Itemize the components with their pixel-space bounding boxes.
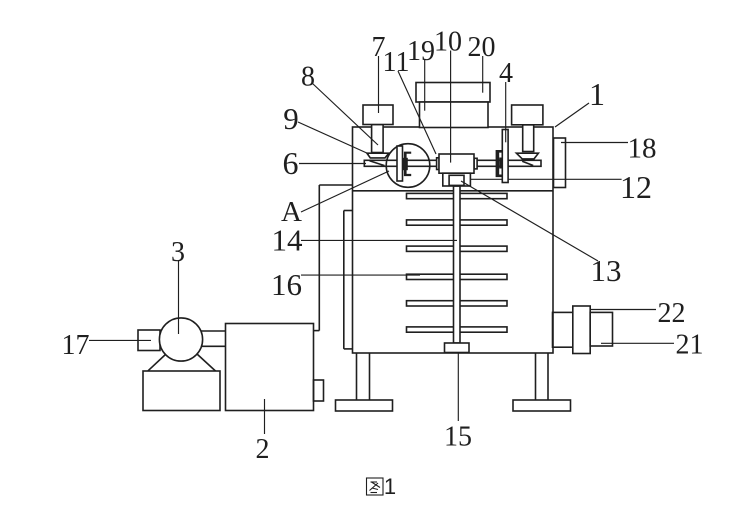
svg-text:21: 21 (676, 330, 704, 361)
svg-text:9: 9 (283, 101, 299, 136)
svg-text:14: 14 (272, 223, 304, 258)
svg-text:18: 18 (628, 133, 657, 165)
svg-text:11: 11 (383, 47, 410, 78)
svg-text:13: 13 (591, 253, 622, 288)
svg-text:15: 15 (444, 422, 472, 453)
svg-text:16: 16 (271, 267, 302, 302)
svg-text:12: 12 (620, 169, 652, 205)
svg-text:1: 1 (384, 474, 396, 499)
svg-text:17: 17 (62, 330, 90, 361)
svg-text:4: 4 (499, 58, 513, 89)
svg-text:2: 2 (256, 434, 270, 465)
svg-text:1: 1 (589, 76, 605, 112)
svg-text:6: 6 (283, 145, 299, 181)
svg-text:20: 20 (468, 32, 496, 63)
svg-text:8: 8 (301, 62, 315, 93)
svg-text:10: 10 (434, 27, 462, 58)
svg-text:19: 19 (407, 36, 435, 67)
svg-text:22: 22 (658, 298, 686, 329)
svg-text:3: 3 (171, 237, 185, 268)
